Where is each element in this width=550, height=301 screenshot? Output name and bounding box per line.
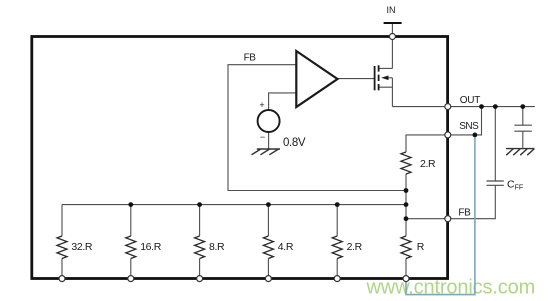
svg-text:16.R: 16.R	[140, 241, 162, 253]
svg-text:4.R: 4.R	[278, 241, 294, 253]
svg-text:IN: IN	[387, 5, 396, 15]
svg-text:2.R: 2.R	[420, 158, 436, 170]
svg-text:32.R: 32.R	[71, 241, 93, 253]
svg-text:OUT: OUT	[460, 95, 480, 106]
svg-text:2.R: 2.R	[347, 241, 363, 253]
svg-text:FB: FB	[458, 208, 471, 219]
svg-text:R: R	[417, 241, 425, 253]
svg-text:+: +	[259, 100, 264, 110]
svg-text:8.R: 8.R	[209, 241, 225, 253]
svg-text:−: −	[260, 132, 265, 142]
svg-text:0.8V: 0.8V	[283, 137, 306, 149]
svg-text:FB: FB	[244, 52, 257, 63]
svg-text:SNS: SNS	[459, 121, 479, 132]
